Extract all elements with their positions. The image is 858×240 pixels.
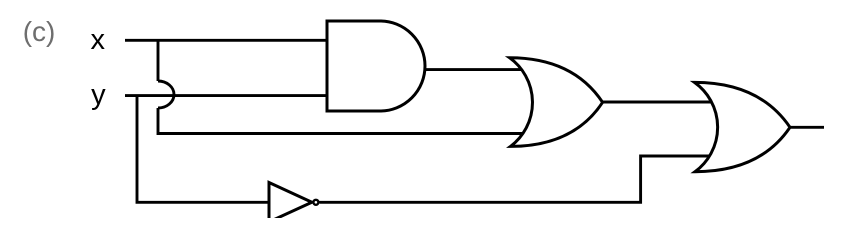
wire y branch down and to NOT input <box>137 96 270 203</box>
svg-text:y: y <box>91 79 106 111</box>
wire y input horizontal <box>125 94 328 97</box>
wire OR2 output <box>789 126 824 129</box>
wire x branch vertical lower and horizontal to OR1 lower input <box>158 108 524 134</box>
AND gate <box>327 21 425 111</box>
NOT gate triangle <box>269 183 312 222</box>
wire x branch vertical upper <box>157 40 160 81</box>
wire hop over y (crossing arc) <box>158 81 174 108</box>
wire AND output to OR1 upper input <box>423 68 523 71</box>
wire x input horizontal <box>125 39 328 42</box>
NOT gate bubble <box>313 200 318 205</box>
svg-text:x: x <box>91 24 106 56</box>
OR gate U2 <box>510 58 603 147</box>
svg-text:(c): (c) <box>23 16 56 47</box>
wire OR1 output to OR2 upper input <box>602 101 712 104</box>
OR gate U3 <box>695 82 791 171</box>
wire NOT output with riser to OR2 lower input <box>320 156 713 202</box>
